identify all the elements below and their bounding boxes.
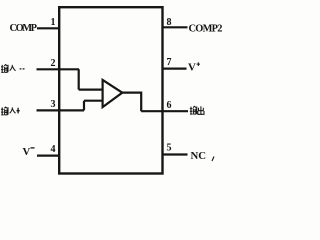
wire: inverting input step to op-amp bbox=[79, 69, 104, 89]
pin 2 wire (inverting input) bbox=[37, 68, 80, 70]
op-amp A1 triangle bbox=[103, 80, 123, 107]
pin 6 wire (output) bbox=[141, 110, 188, 112]
stray comma mark after NC bbox=[212, 157, 214, 162]
pin 1 wire (COMP) bbox=[37, 27, 59, 29]
pin 8 wire (COMP2) bbox=[162, 26, 188, 28]
svg-text:8: 8 bbox=[167, 17, 172, 28]
svg-text:NC: NC bbox=[191, 150, 207, 162]
svg-text:4: 4 bbox=[51, 144, 56, 155]
svg-text:2: 2 bbox=[51, 58, 56, 69]
pin 5 wire (NC) bbox=[162, 153, 188, 155]
svg-text:1: 1 bbox=[51, 17, 56, 28]
svg-text:6: 6 bbox=[167, 100, 172, 111]
svg-text:7: 7 bbox=[167, 57, 172, 68]
svg-text:5: 5 bbox=[167, 143, 172, 154]
pin 2 label 输入- (input minus), hand-drawn glyphs bbox=[1, 65, 25, 73]
svg-text:V: V bbox=[188, 62, 196, 74]
wire: op-amp output to pin 6 bbox=[122, 93, 142, 112]
svg-text:3: 3 bbox=[51, 99, 56, 110]
pin 3 wire (non-inverting input) bbox=[37, 109, 85, 111]
pin 6 label 输出 (output), hand-drawn glyphs bbox=[190, 106, 204, 114]
svg-text:COMP2: COMP2 bbox=[189, 24, 223, 35]
pin 3 label 输入+ (input plus), hand-drawn glyphs bbox=[1, 107, 20, 115]
svg-text:V: V bbox=[23, 146, 31, 158]
svg-text:COMP: COMP bbox=[10, 23, 38, 34]
wire: non-inverting input step to op-amp bbox=[84, 101, 103, 111]
pin 4 wire (V-) bbox=[37, 155, 59, 157]
pin 7 wire (V+) bbox=[162, 67, 187, 69]
IC body U1 (DIP-8 outline) bbox=[59, 7, 162, 173]
